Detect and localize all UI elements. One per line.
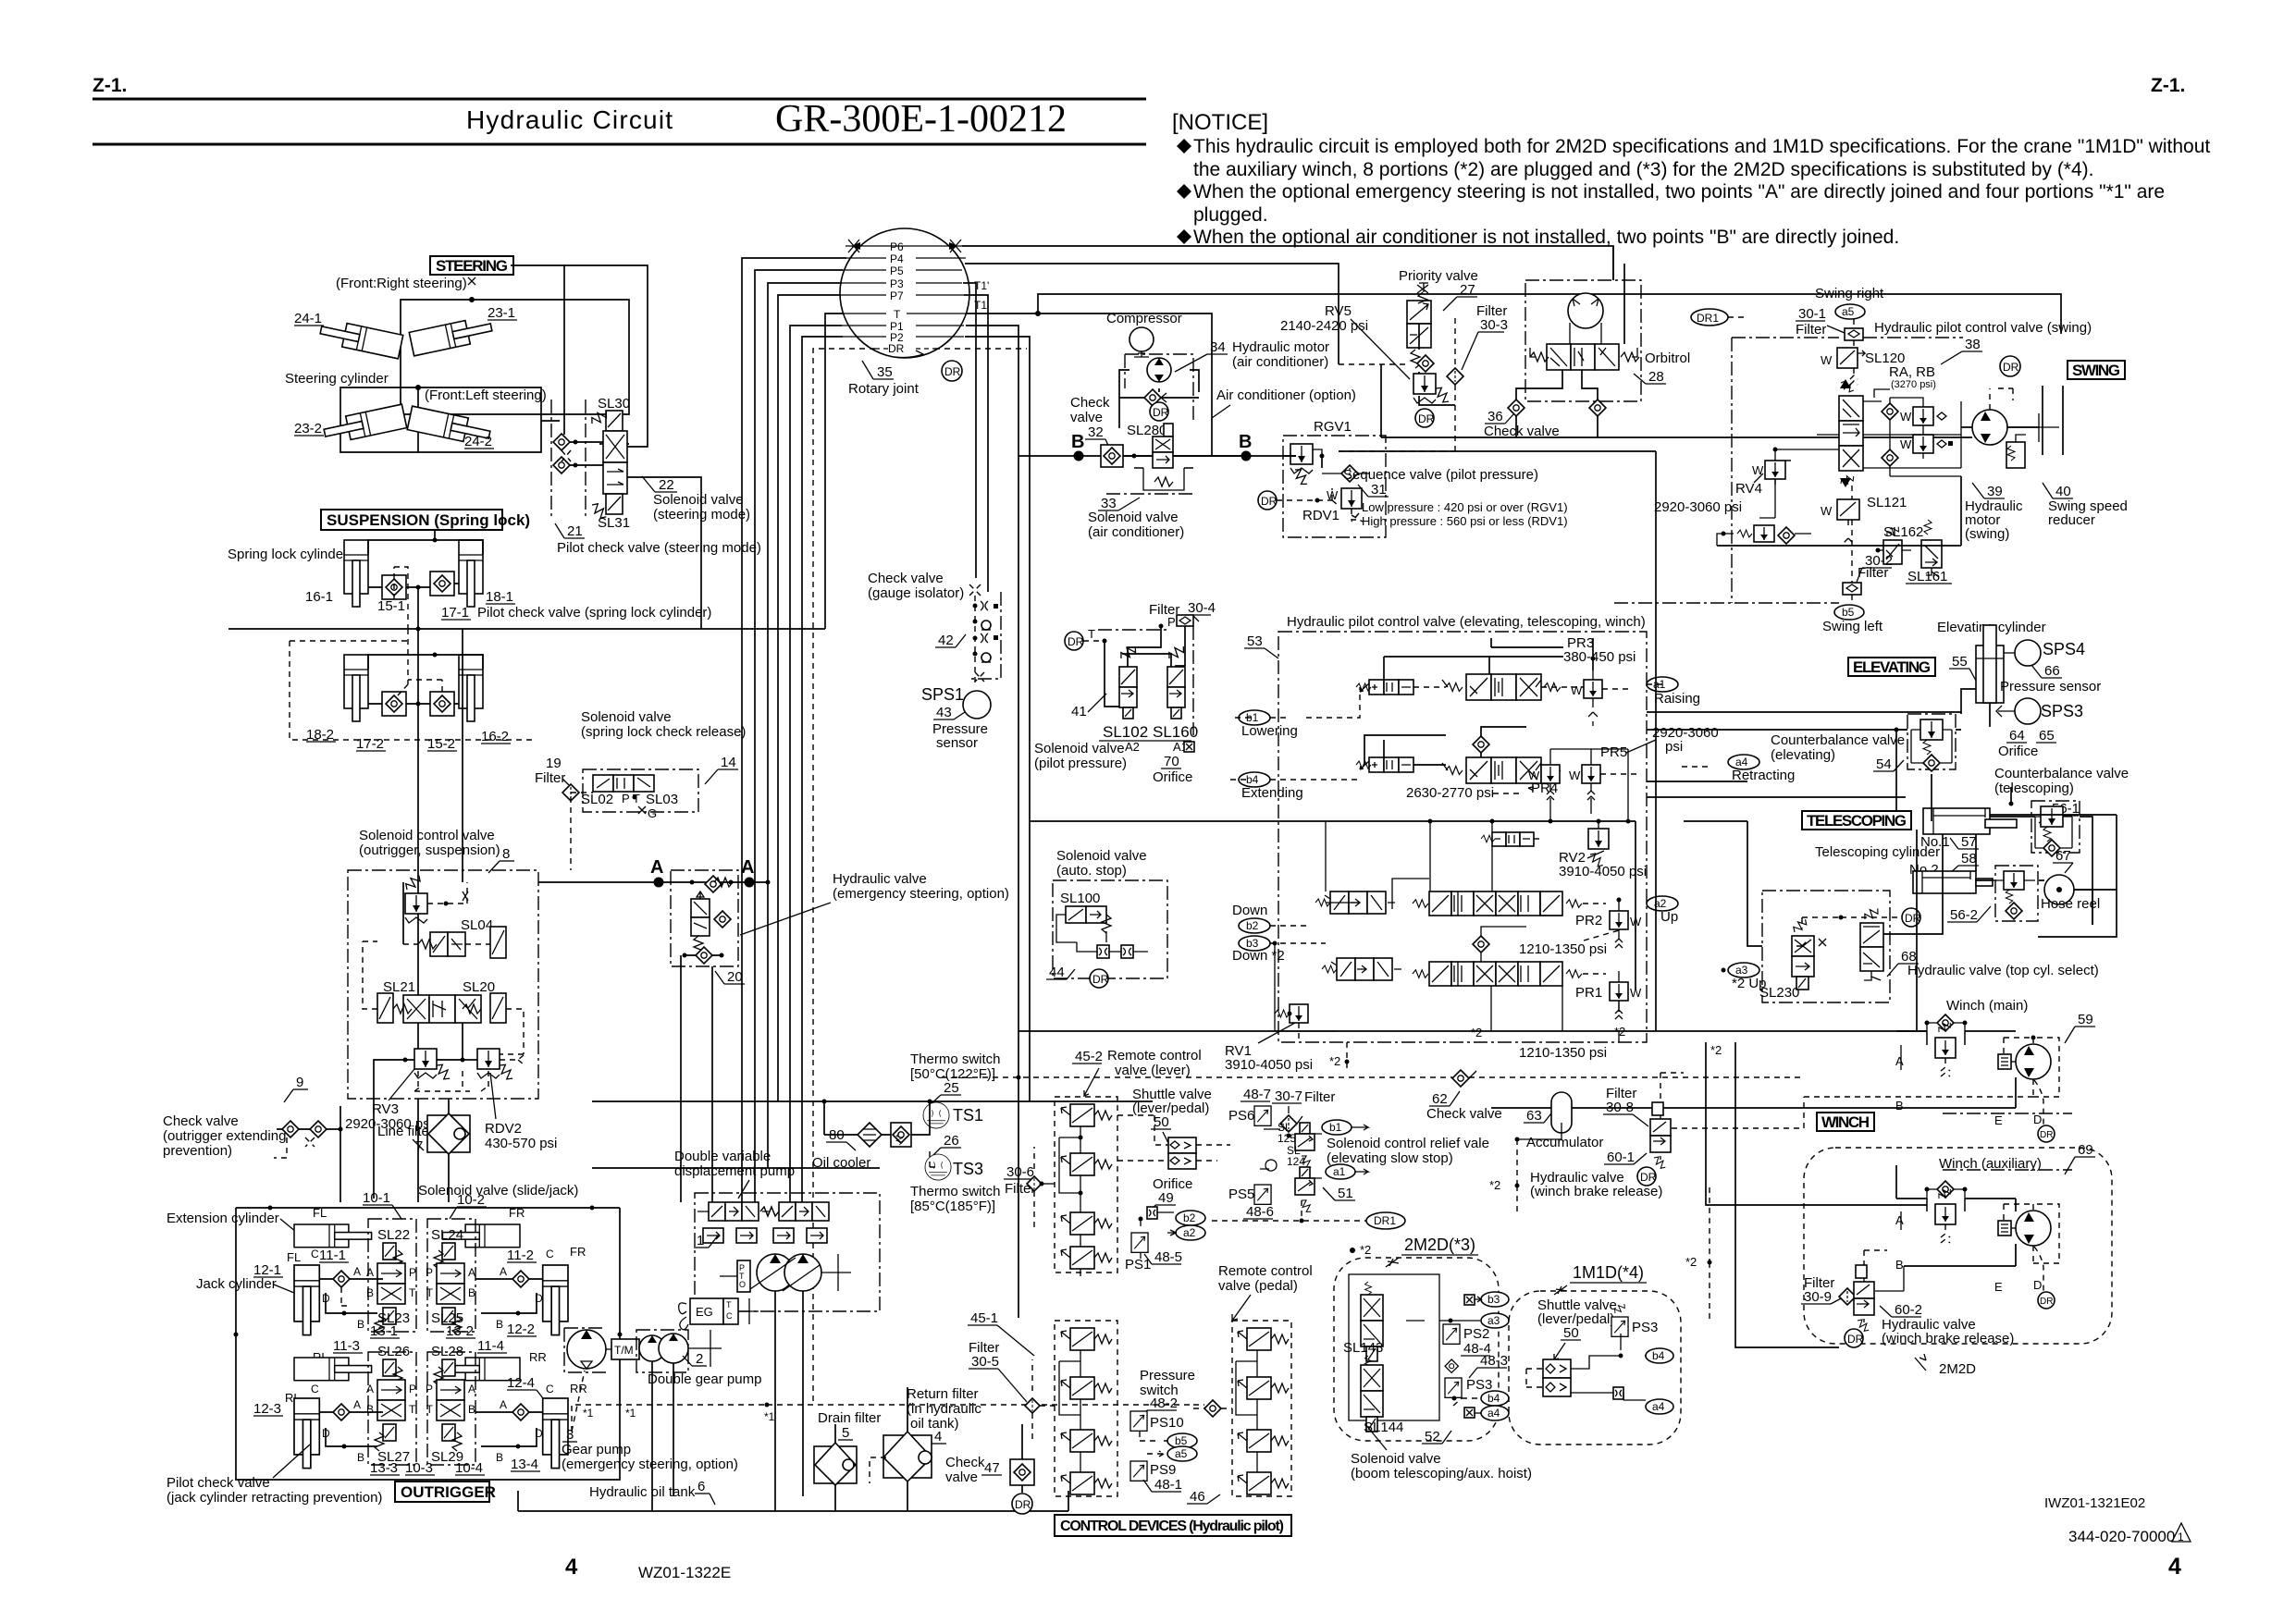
orifice 49	[1147, 1207, 1157, 1219]
svg-text:2M2D: 2M2D	[1939, 1361, 1976, 1377]
PS1 48-5	[1131, 1233, 1148, 1252]
swing relief RA	[1900, 407, 1946, 425]
svg-text:Z-1.: Z-1.	[2151, 75, 2185, 96]
pump control valve right	[760, 1202, 829, 1243]
RV1 relief	[1275, 1004, 1308, 1023]
svg-text:P5: P5	[890, 264, 904, 277]
svg-text:FL: FL	[313, 1206, 327, 1220]
svg-text:30-1: 30-1	[1798, 306, 1826, 322]
counterbalance 56-2	[1995, 866, 2038, 921]
svg-text:56-2: 56-2	[1950, 907, 1978, 923]
SL125 valve	[1295, 1123, 1315, 1170]
footer revision triangle	[2172, 1523, 2191, 1542]
check FL	[333, 1271, 350, 1287]
svg-text:valve: valve	[945, 1469, 978, 1485]
svg-text:PS9: PS9	[1150, 1462, 1176, 1478]
svg-text:Filter: Filter	[1304, 1089, 1335, 1105]
svg-text:PR1: PR1	[1575, 985, 1602, 1001]
telescoping cylinder No.1	[1923, 808, 1990, 834]
svg-text:P6: P6	[890, 240, 904, 253]
svg-text:valve (pedal): valve (pedal)	[1218, 1278, 1298, 1294]
svg-text:9: 9	[296, 1075, 303, 1090]
svg-text:B: B	[468, 1403, 475, 1416]
SPS4 pressure sensor	[2015, 640, 2041, 666]
wire suspension top pair	[368, 540, 483, 555]
svg-text:2M2D(*3): 2M2D(*3)	[1404, 1236, 1475, 1254]
svg-text:Jack cylinder: Jack cylinder	[196, 1276, 277, 1292]
svg-text:the auxiliary winch, 8 portion: the auxiliary winch, 8 portions (*2) are…	[1193, 159, 2094, 180]
pilot check valve 15-1	[382, 575, 406, 599]
svg-text:59: 59	[2078, 1012, 2093, 1027]
svg-text:RR: RR	[529, 1350, 547, 1364]
check valve beside oil cooler	[891, 1123, 911, 1147]
AC dash-dot frame	[1125, 354, 1193, 421]
svg-text:SL24: SL24	[431, 1227, 463, 1243]
svg-text:Solenoid control valve: Solenoid control valve	[359, 828, 495, 843]
svg-text:Steering cylinder: Steering cylinder	[285, 371, 389, 387]
port (b5)	[1834, 605, 1864, 620]
svg-text:DR: DR	[2003, 361, 2019, 374]
svg-text:50: 50	[1563, 1325, 1579, 1341]
svg-text:Swing left: Swing left	[1822, 619, 1883, 634]
wire box8 top link to A line	[418, 629, 463, 995]
svg-text:64: 64	[2009, 728, 2025, 744]
port (b1)	[1239, 710, 1270, 725]
G port	[638, 806, 646, 814]
svg-text:T/M: T/M	[614, 1344, 634, 1357]
svg-text:28: 28	[1648, 369, 1664, 385]
PR1 relief	[1610, 971, 1642, 1019]
svg-text:Down *2: Down *2	[1232, 948, 1285, 964]
svg-text:This hydraulic circuit is empl: This hydraulic circuit is employed both …	[1193, 136, 2210, 157]
svg-text:Line filter: Line filter	[377, 1124, 434, 1139]
svg-text:Check valve: Check valve	[163, 1113, 239, 1129]
wires oil cooler	[824, 1101, 930, 1135]
svg-text:When the optional emergency st: When the optional emergency steering is …	[1193, 181, 2165, 203]
svg-text:(Front:Left steering): (Front:Left steering)	[425, 387, 547, 403]
wire row2 link	[1364, 727, 1526, 765]
svg-text:b4: b4	[1652, 1349, 1665, 1362]
svg-text:DR: DR	[1847, 1333, 1864, 1346]
svg-text:a3: a3	[1487, 1314, 1500, 1327]
svg-text:Orifice: Orifice	[1998, 744, 2038, 759]
wire steering to valve	[541, 420, 560, 422]
wire long lines to swing	[1339, 437, 1972, 451]
ELEVATING section box	[1848, 658, 1935, 676]
steering cylinder 24-1	[318, 318, 402, 359]
svg-text:Spring lock cylinder: Spring lock cylinder	[228, 547, 348, 562]
svg-text:*1: *1	[583, 1407, 594, 1420]
svg-text:D: D	[2033, 1113, 2042, 1126]
svg-text:W: W	[1571, 683, 1583, 697]
relief RV3	[414, 1049, 437, 1078]
svg-text:Check valve: Check valve	[1426, 1106, 1502, 1122]
dash-dot frame 53	[1278, 632, 1647, 1042]
svg-text:8: 8	[502, 846, 510, 862]
wires orbitrol	[1516, 370, 1598, 437]
svg-text:34: 34	[1210, 339, 1226, 355]
svg-text:W: W	[1821, 504, 1833, 518]
svg-text:16-1: 16-1	[305, 589, 333, 605]
svg-text:10-2: 10-2	[457, 1192, 485, 1208]
svg-text:23-1: 23-1	[488, 305, 515, 321]
svg-text:14: 14	[721, 755, 736, 770]
port (a3)	[1728, 963, 1759, 977]
SL144 valve	[1361, 1356, 1383, 1432]
svg-text:Solenoid valve: Solenoid valve	[1056, 848, 1147, 864]
svg-text:FL: FL	[287, 1250, 301, 1264]
svg-text:Solenoid valve (slide/jack): Solenoid valve (slide/jack)	[418, 1183, 578, 1199]
check RR	[512, 1404, 529, 1420]
svg-text:(lever/pedal): (lever/pedal)	[1132, 1100, 1209, 1116]
svg-text:Counterbalance valve: Counterbalance valve	[1771, 732, 1905, 748]
dashed pilot lines bottom	[398, 629, 442, 695]
svg-text:Thermo switch: Thermo switch	[910, 1051, 1001, 1067]
PR2 relief	[1610, 900, 1642, 948]
EG / TC box	[690, 1298, 723, 1324]
swing speed reducer shafts	[2007, 413, 2059, 442]
steering cylinder 24-2	[407, 406, 491, 447]
rotary joint internal port lines	[846, 245, 964, 247]
svg-text:Telescoping cylinder: Telescoping cylinder	[1815, 844, 1940, 860]
svg-text:Raising: Raising	[1654, 691, 1700, 707]
check in AC loop	[1144, 389, 1161, 406]
svg-text:30-6: 30-6	[1006, 1164, 1034, 1180]
svg-text:B: B	[366, 1403, 374, 1416]
notice bullet 3	[1177, 229, 1191, 244]
dash-dot frame gear pump	[564, 1328, 606, 1372]
svg-text:RV4: RV4	[1735, 481, 1762, 497]
svg-text:(outrigger, suspension): (outrigger, suspension)	[359, 842, 500, 858]
svg-text:PR2: PR2	[1575, 913, 1602, 928]
outrigger outer frame wire	[236, 1208, 620, 1480]
svg-text:sensor: sensor	[936, 735, 978, 751]
jack cylinder RR	[543, 1398, 568, 1469]
wire bottom rail of 53	[1018, 1030, 1927, 1032]
svg-text:48-2: 48-2	[1150, 1396, 1178, 1411]
svg-text:WINCH: WINCH	[1821, 1113, 1870, 1131]
port (a2)	[1647, 896, 1678, 911]
PR3 relief	[1571, 670, 1602, 726]
DR circle AC	[1150, 402, 1168, 421]
spring lock cylinder 18-2	[344, 655, 368, 721]
svg-text:SL22: SL22	[377, 1227, 410, 1243]
rcv elements upper	[1061, 1104, 1112, 1126]
svg-text:48-7: 48-7	[1243, 1087, 1271, 1102]
svg-text:Hose reel: Hose reel	[2041, 896, 2100, 912]
wire cylinder bottom	[1961, 689, 1990, 727]
upper RCV lever block dashed frame	[1055, 1097, 1117, 1273]
winch main brake circuit	[1937, 1014, 1954, 1031]
wire verticals center	[1018, 456, 1030, 1318]
svg-text:42: 42	[938, 633, 954, 648]
wire swing pilot vertical dashed	[1851, 486, 1853, 605]
filter in RGV1	[1341, 465, 1358, 482]
port (DR1)	[1366, 1212, 1405, 1229]
TELESCOPING section box	[1802, 811, 1911, 830]
dash-dot frame SL230	[1762, 891, 1890, 1002]
svg-text:47: 47	[984, 1460, 1000, 1476]
svg-text:DR: DR	[1153, 406, 1169, 419]
svg-text:b5: b5	[1175, 1434, 1188, 1447]
svg-text:A: A	[1895, 1213, 1904, 1227]
svg-text:SL100: SL100	[1060, 891, 1100, 906]
relief valve in box 8	[405, 893, 427, 923]
svg-text:Solenoid valve: Solenoid valve	[653, 492, 744, 508]
wire P1 right down to B	[966, 326, 1018, 456]
swing main spool (vertical)	[1839, 379, 1863, 487]
svg-text:a1: a1	[1333, 1165, 1346, 1178]
svg-text:[NOTICE]: [NOTICE]	[1172, 110, 1268, 135]
svg-text:a4: a4	[1735, 756, 1748, 768]
svg-text:6: 6	[697, 1479, 705, 1494]
spring lock cylinder 16-2	[459, 655, 483, 721]
wire P4 left + vertical	[742, 258, 846, 1202]
row3 pilot valve small	[1315, 891, 1395, 914]
svg-text:(swing): (swing)	[1965, 526, 2009, 542]
svg-text:PS6: PS6	[1228, 1108, 1254, 1124]
orbitrol checks below	[1508, 400, 1524, 416]
rounded dashed box aux winch	[1804, 1148, 2112, 1344]
svg-text:1210-1350 psi: 1210-1350 psi	[1519, 1045, 1607, 1061]
svg-text:DR: DR	[1640, 1171, 1657, 1184]
svg-text:Double gear pump: Double gear pump	[648, 1371, 761, 1387]
svg-text:SL03: SL03	[646, 792, 678, 807]
wire	[401, 300, 629, 414]
jack cylinder RL	[294, 1398, 319, 1469]
oil cooler diamond	[858, 1123, 882, 1147]
svg-text:a2: a2	[1183, 1226, 1196, 1239]
svg-text:IWZ01-1321E02: IWZ01-1321E02	[2044, 1495, 2145, 1511]
DR circle 60-2	[1845, 1329, 1863, 1347]
svg-text:CONTROL DEVICES (Hydraulic pil: CONTROL DEVICES (Hydraulic pilot)	[1060, 1518, 1284, 1534]
svg-text:Hydraulic oil tank: Hydraulic oil tank	[589, 1484, 696, 1500]
svg-text:Accumulator: Accumulator	[1526, 1135, 1603, 1150]
svg-text:WZ01-1322E: WZ01-1322E	[638, 1564, 731, 1581]
reducer brake box	[2006, 442, 2025, 468]
svg-text:Oil cooler: Oil cooler	[812, 1155, 870, 1171]
svg-text:(3270 psi): (3270 psi)	[1891, 379, 1936, 390]
svg-text:prevention): prevention)	[163, 1143, 232, 1159]
wire B line	[1018, 455, 1296, 457]
svg-text:B: B	[468, 1286, 475, 1299]
svg-text:24-1: 24-1	[294, 311, 322, 326]
svg-text:Solenoid valve: Solenoid valve	[1351, 1451, 1441, 1467]
steering cylinder 23-1	[409, 315, 493, 356]
row1 main spool	[1442, 674, 1561, 700]
svg-text:4: 4	[934, 1429, 942, 1445]
svg-text:46: 46	[1190, 1489, 1205, 1505]
svg-text:PS3: PS3	[1632, 1320, 1658, 1335]
svg-text:430-570 psi: 430-570 psi	[485, 1136, 557, 1151]
DR circle below 47	[1012, 1494, 1032, 1514]
wire T left + vertical	[825, 314, 844, 629]
svg-text:30-4: 30-4	[1188, 600, 1216, 616]
PS9 48-1	[1130, 1461, 1147, 1481]
svg-text:*1: *1	[764, 1410, 775, 1423]
svg-text:67: 67	[2055, 848, 2071, 864]
ports (b3)(a3) right	[1464, 1295, 1475, 1305]
svg-text:A: A	[1895, 1054, 1904, 1068]
svg-text:11-4: 11-4	[477, 1338, 504, 1354]
swing check column	[1882, 403, 1898, 420]
svg-text:2140-2420 psi: 2140-2420 psi	[1280, 318, 1368, 334]
SL102 valve	[1118, 643, 1139, 662]
svg-text:26: 26	[944, 1133, 959, 1149]
svg-text:10-3: 10-3	[405, 1460, 433, 1476]
svg-text:SWING: SWING	[2072, 362, 2120, 379]
svg-text:FR: FR	[509, 1206, 525, 1220]
svg-text:45-1: 45-1	[970, 1310, 998, 1326]
svg-text:Orbitrol: Orbitrol	[1645, 350, 1690, 366]
check over row4	[1473, 936, 1489, 953]
svg-text:3910-4050 psi: 3910-4050 psi	[1225, 1057, 1313, 1073]
check+spring top	[705, 876, 722, 892]
svg-text:21: 21	[567, 523, 583, 539]
svg-text:31: 31	[1371, 482, 1387, 498]
svg-text:SL160: SL160	[1153, 723, 1198, 741]
port (a4)	[1728, 755, 1759, 769]
svg-text:60-1: 60-1	[1607, 1150, 1635, 1165]
svg-text:SL143: SL143	[1343, 1340, 1383, 1356]
wire T1' long line to swing	[1038, 294, 2061, 334]
svg-text:P3: P3	[890, 277, 904, 290]
svg-text:Hydraulic Circuit: Hydraulic Circuit	[466, 105, 673, 134]
svg-text:*2: *2	[1329, 1054, 1340, 1068]
svg-text:(in hydraulic: (in hydraulic	[907, 1401, 981, 1417]
svg-text:5: 5	[842, 1425, 849, 1441]
svg-text:reducer: reducer	[2048, 512, 2095, 528]
row3 long spool	[1413, 891, 1582, 916]
svg-text:19: 19	[546, 756, 562, 771]
svg-text:10-1: 10-1	[363, 1190, 390, 1206]
svg-text:3910-4050 psi: 3910-4050 psi	[1559, 864, 1647, 879]
extension cylinder RL	[294, 1358, 372, 1381]
svg-text:41: 41	[1071, 704, 1087, 719]
svg-text:valve (lever): valve (lever)	[1115, 1063, 1191, 1078]
svg-text:Hydraulic pilot control valve: Hydraulic pilot control valve (swing)	[1874, 320, 2092, 336]
svg-text:Solenoid valve: Solenoid valve	[1034, 741, 1125, 756]
svg-text:PR4: PR4	[1531, 781, 1558, 796]
svg-text:A: A	[468, 1383, 475, 1396]
svg-text:When the optional air conditio: When the optional air conditioner is not…	[1193, 227, 1899, 248]
svg-text:Down: Down	[1232, 903, 1267, 918]
svg-text:38: 38	[1965, 337, 1981, 352]
svg-text:DR: DR	[1092, 973, 1109, 986]
svg-text:C: C	[311, 1248, 319, 1260]
svg-text:P: P	[409, 1266, 416, 1279]
svg-text:E: E	[1994, 1113, 2003, 1127]
header rule top	[93, 98, 1146, 101]
check valve 32 symbol	[1101, 445, 1123, 467]
svg-text:SL144: SL144	[1364, 1420, 1403, 1435]
wire A line	[538, 881, 768, 883]
wire	[570, 442, 603, 465]
svg-text:a4: a4	[1487, 1407, 1500, 1420]
svg-text:B: B	[1239, 432, 1252, 452]
line filter 7	[427, 1115, 470, 1152]
wires aux	[1927, 1199, 1965, 1211]
dashed pilot rail y=1165	[942, 1076, 1804, 1078]
svg-text:psi: psi	[1665, 739, 1683, 755]
svg-text:SL102: SL102	[1103, 723, 1148, 741]
svg-text:Winch (main): Winch (main)	[1946, 998, 2028, 1014]
svg-text:*2: *2	[1685, 1255, 1697, 1269]
pilot check valve 15-2	[430, 692, 454, 716]
svg-text:13-2: 13-2	[446, 1323, 474, 1339]
solenoid valve SL02/SL03	[593, 775, 613, 792]
svg-text:A: A	[468, 1266, 475, 1279]
svg-text:30-9: 30-9	[1804, 1289, 1832, 1305]
svg-text:(jack cylinder retracting prev: (jack cylinder retracting prevention)	[167, 1490, 382, 1506]
svg-text:Thermo switch: Thermo switch	[910, 1184, 1001, 1199]
svg-text:D: D	[2033, 1278, 2042, 1292]
svg-text:11-2: 11-2	[507, 1248, 534, 1263]
wire P6 right to orbitrol	[962, 246, 1613, 280]
rounded dashed boundary 1M1D	[1509, 1291, 1681, 1445]
svg-text:TS3: TS3	[953, 1160, 983, 1178]
svg-text:C: C	[311, 1383, 319, 1396]
svg-text:48-3: 48-3	[1480, 1353, 1508, 1369]
svg-text:18-1: 18-1	[486, 589, 513, 605]
wire CB to cylinder	[1896, 730, 1961, 821]
pump control valve left	[697, 1202, 779, 1243]
svg-text:Return filter: Return filter	[907, 1386, 979, 1402]
dash-dot frame RGV1	[1283, 436, 1386, 537]
orbitrol spool	[1547, 344, 1571, 370]
orbitrol pump circle	[1568, 293, 1603, 328]
svg-text:b1: b1	[1329, 1121, 1342, 1134]
svg-text:ELEVATING: ELEVATING	[1853, 658, 1931, 676]
svg-text:11-1: 11-1	[319, 1248, 346, 1263]
svg-text:A: A	[366, 1383, 374, 1396]
PTO box	[737, 1260, 750, 1292]
svg-text:58: 58	[1961, 851, 1977, 867]
svg-text:RA, RB: RA, RB	[1889, 364, 1935, 380]
svg-text:PS5: PS5	[1228, 1187, 1254, 1202]
dash-dot frame 42	[970, 592, 1001, 679]
dash-dot frame 41	[1098, 626, 1193, 735]
wire P7 right	[964, 295, 988, 592]
svg-text:(emergency steering, option): (emergency steering, option)	[562, 1457, 738, 1472]
svg-text:48-5: 48-5	[1154, 1249, 1182, 1265]
svg-text:2630-2770 psi: 2630-2770 psi	[1406, 785, 1494, 801]
wire valve to right	[564, 265, 648, 447]
svg-text:65: 65	[2039, 728, 2055, 744]
svg-text:22: 22	[659, 477, 674, 493]
dash-dot frame 14	[583, 769, 698, 812]
svg-text:DR: DR	[1068, 635, 1084, 648]
svg-text:RR: RR	[570, 1382, 587, 1396]
wires SL21/SL20	[363, 941, 377, 1009]
svg-text:Filter: Filter	[1796, 322, 1826, 338]
svg-text:(winch brake release): (winch brake release)	[1882, 1331, 2014, 1346]
wire P3 right long to pilot cv	[963, 283, 976, 578]
svg-text:(telescoping): (telescoping)	[1994, 781, 2074, 796]
svg-text:344-020-70000: 344-020-70000	[2068, 1528, 2175, 1545]
dash-dot frame pump 1	[695, 1193, 880, 1311]
svg-text:4: 4	[2168, 1554, 2181, 1580]
port (a1)	[1647, 677, 1678, 692]
jack cylinder FR	[543, 1265, 568, 1335]
check valve 9 pair	[282, 1121, 299, 1137]
CONTROL DEVICES section box	[1055, 1515, 1291, 1536]
svg-text:P: P	[409, 1383, 416, 1396]
gear pump (emergency steering) 3	[567, 1330, 606, 1369]
svg-text:SL04: SL04	[461, 917, 493, 933]
label (DR1)	[1691, 309, 1728, 326]
svg-text:Solenoid control relief vale: Solenoid control relief vale	[1327, 1136, 1489, 1151]
